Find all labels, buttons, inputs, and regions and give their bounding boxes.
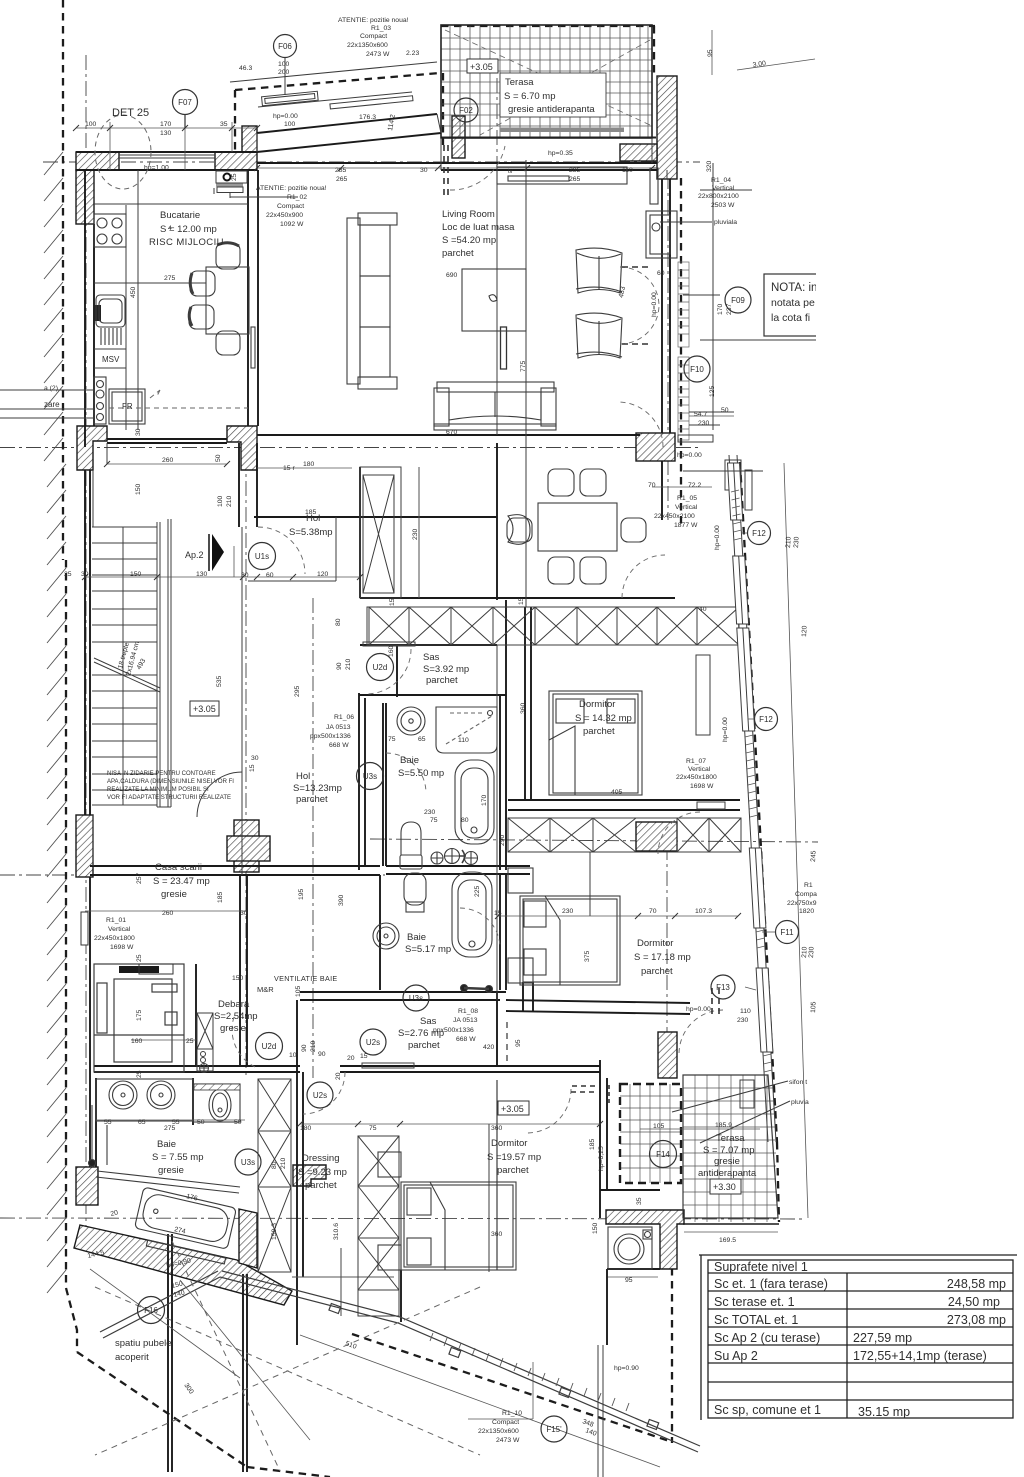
- svg-text:285: 285: [569, 167, 581, 174]
- svg-text:U2s: U2s: [313, 1091, 327, 1100]
- svg-text:110: 110: [458, 737, 469, 744]
- svg-text:50: 50: [234, 1119, 242, 1126]
- svg-text:F11: F11: [780, 928, 794, 937]
- svg-text:150.3: 150.3: [271, 1223, 278, 1240]
- svg-text:Compa: Compa: [795, 891, 817, 898]
- svg-text:230: 230: [424, 809, 436, 816]
- svg-text:54.7: 54.7: [694, 411, 707, 418]
- svg-text:Compact: Compact: [360, 33, 387, 40]
- svg-text:150: 150: [592, 1222, 599, 1234]
- svg-text:265: 265: [336, 176, 348, 183]
- svg-text:185: 185: [589, 1138, 596, 1150]
- svg-text:10: 10: [289, 1052, 297, 1059]
- svg-text:pluvia: pluvia: [791, 1099, 809, 1106]
- svg-text:30: 30: [240, 910, 248, 917]
- svg-text:NOTA: in: NOTA: in: [771, 282, 817, 294]
- svg-text:210: 210: [226, 495, 233, 507]
- svg-text:22x1350x600: 22x1350x600: [478, 1428, 519, 1435]
- svg-text:257: 257: [136, 872, 143, 884]
- svg-text:S=5.17 mp: S=5.17 mp: [405, 944, 451, 955]
- svg-text:22x450x1800: 22x450x1800: [94, 935, 135, 942]
- svg-text:DET 25: DET 25: [112, 107, 149, 119]
- svg-text:60: 60: [657, 270, 665, 277]
- svg-text:VOR FI ADAPTATE STRUCTURII REA: VOR FI ADAPTATE STRUCTURII REALIZATE: [107, 795, 231, 801]
- svg-text:F07: F07: [178, 98, 192, 107]
- svg-text:210: 210: [280, 1157, 287, 1169]
- svg-text:15: 15: [518, 597, 525, 605]
- svg-text:S=5.50 mp: S=5.50 mp: [398, 768, 444, 779]
- svg-text:hp=0.00: hp=0.00: [686, 1006, 711, 1013]
- svg-text:Sc sp, comune et 1: Sc sp, comune et 1: [714, 1403, 821, 1417]
- svg-text:260: 260: [162, 457, 174, 464]
- svg-text:Terasa: Terasa: [716, 1133, 745, 1144]
- svg-text:S = 6.70 mp: S = 6.70 mp: [504, 91, 556, 102]
- svg-text:F16: F16: [144, 1306, 158, 1315]
- svg-text:S = 17.18 mp: S = 17.18 mp: [634, 952, 691, 963]
- svg-text:gresie: gresie: [220, 1023, 246, 1034]
- svg-text:360: 360: [491, 1231, 503, 1238]
- svg-text:F13: F13: [716, 983, 730, 992]
- svg-text:105: 105: [810, 1001, 818, 1013]
- svg-text:Sc et. 1 (fara terase): Sc et. 1 (fara terase): [714, 1277, 828, 1291]
- svg-text:hp=0.00: hp=0.00: [273, 113, 298, 120]
- svg-text:775: 775: [520, 360, 527, 372]
- svg-text:R1_07: R1_07: [686, 758, 706, 765]
- svg-text:210: 210: [785, 536, 793, 548]
- svg-text:parchet: parchet: [296, 794, 328, 805]
- svg-text:Sc Ap 2 (cu terase): Sc Ap 2 (cu terase): [714, 1331, 820, 1345]
- svg-text:15: 15: [389, 598, 396, 606]
- svg-text:120: 120: [801, 625, 809, 637]
- svg-text:acoperit: acoperit: [115, 1352, 149, 1363]
- svg-text:parchet: parchet: [426, 675, 458, 686]
- svg-text:237: 237: [726, 303, 733, 315]
- svg-text:hp=0.00: hp=0.00: [651, 292, 658, 317]
- svg-text:107.3: 107.3: [695, 908, 712, 915]
- svg-text:50: 50: [197, 1119, 205, 1126]
- svg-text:30: 30: [135, 428, 142, 436]
- svg-text:22x1350x600: 22x1350x600: [347, 42, 388, 49]
- svg-text:65: 65: [418, 736, 426, 743]
- svg-text:R1_02: R1_02: [287, 194, 307, 201]
- svg-text:285: 285: [335, 167, 347, 174]
- svg-text:pluviala: pluviala: [714, 219, 737, 226]
- svg-text:35: 35: [220, 121, 228, 128]
- svg-text:la cota fi: la cota fi: [771, 312, 810, 324]
- svg-text:390: 390: [338, 894, 345, 906]
- svg-text:180: 180: [300, 1125, 312, 1132]
- svg-text:100: 100: [217, 495, 224, 507]
- svg-text:R1_01: R1_01: [106, 917, 126, 924]
- svg-text:Compact: Compact: [277, 203, 304, 210]
- svg-text:90: 90: [301, 1044, 308, 1052]
- svg-text:75: 75: [430, 817, 438, 824]
- svg-text:170: 170: [481, 794, 488, 806]
- svg-text:185: 185: [305, 509, 317, 516]
- svg-text:170: 170: [160, 121, 172, 128]
- svg-text:ppx500x1336: ppx500x1336: [433, 1027, 474, 1034]
- svg-text:Vertical: Vertical: [108, 926, 131, 933]
- svg-text:360: 360: [491, 1125, 503, 1132]
- svg-text:notata pe: notata pe: [771, 297, 815, 309]
- svg-text:U3s: U3s: [409, 994, 423, 1003]
- svg-text:169.5: 169.5: [719, 1237, 736, 1244]
- svg-text:F12: F12: [752, 529, 766, 538]
- svg-text:S=13.23mp: S=13.23mp: [293, 783, 342, 794]
- svg-text:S=3.92 mp: S=3.92 mp: [423, 664, 469, 675]
- svg-text:Sas: Sas: [420, 1016, 437, 1027]
- svg-text:Baie: Baie: [157, 1139, 176, 1150]
- svg-text:ATENTIE: pozitie noua!: ATENTIE: pozitie noua!: [338, 17, 409, 24]
- svg-text:F12: F12: [759, 715, 773, 724]
- svg-text:JA 0513: JA 0513: [453, 1017, 478, 1024]
- svg-text:S = 23.47 mp: S = 23.47 mp: [153, 876, 210, 887]
- svg-text:125: 125: [709, 385, 716, 397]
- svg-text:120: 120: [317, 571, 329, 578]
- svg-text:195: 195: [298, 888, 305, 900]
- svg-text:25: 25: [64, 571, 72, 578]
- svg-text:RISC MIJLOCIU: RISC MIJLOCIU: [149, 237, 224, 248]
- svg-text:MSV: MSV: [102, 355, 120, 364]
- svg-text:290: 290: [499, 834, 506, 846]
- svg-text:35: 35: [636, 1197, 643, 1205]
- svg-text:230: 230: [793, 536, 801, 548]
- svg-text:Dormitor: Dormitor: [637, 938, 673, 949]
- svg-text:70: 70: [648, 482, 656, 489]
- svg-text:105: 105: [653, 1123, 665, 1130]
- svg-text:R1_04: R1_04: [711, 177, 731, 184]
- svg-text:30: 30: [251, 755, 259, 762]
- svg-text:ppx500x1336: ppx500x1336: [310, 733, 351, 740]
- svg-text:Vertical: Vertical: [712, 185, 735, 192]
- svg-text:Ap.2: Ap.2: [185, 550, 204, 560]
- svg-text:668 W: 668 W: [456, 1036, 476, 1043]
- svg-text:a (2): a (2): [44, 385, 58, 392]
- svg-text:295: 295: [294, 685, 301, 697]
- svg-text:parchet: parchet: [583, 726, 615, 737]
- svg-text:hp=0.00: hp=0.00: [722, 717, 729, 742]
- svg-text:Su Ap 2: Su Ap 2: [714, 1349, 758, 1363]
- svg-text:24,50 mp: 24,50 mp: [948, 1295, 1000, 1309]
- svg-text:150: 150: [135, 483, 142, 495]
- svg-text:95: 95: [625, 1277, 633, 1284]
- svg-text:U3s: U3s: [241, 1158, 255, 1167]
- svg-text:ATENTIE: pozitie noua!: ATENTIE: pozitie noua!: [256, 185, 327, 192]
- svg-text:R1_08: R1_08: [458, 1008, 478, 1015]
- svg-text:APA,CALDURA (DIMENSIUNILE NISE: APA,CALDURA (DIMENSIUNILE NISEI VOR FI: [107, 779, 234, 785]
- svg-text:R1_10: R1_10: [502, 1410, 522, 1417]
- svg-text:sifon t: sifon t: [789, 1079, 807, 1086]
- svg-text:gresie antiderapanta: gresie antiderapanta: [508, 104, 595, 115]
- svg-text:FR: FR: [122, 402, 133, 411]
- svg-text:F14: F14: [656, 1150, 670, 1159]
- svg-text:90: 90: [336, 662, 343, 670]
- svg-text:Terasa: Terasa: [505, 77, 534, 88]
- svg-text:F06: F06: [278, 42, 292, 51]
- svg-text:2473 W: 2473 W: [496, 1437, 520, 1444]
- svg-text:Loc de luat masa: Loc de luat masa: [442, 222, 515, 233]
- svg-text:+3.05: +3.05: [193, 704, 216, 714]
- svg-text:100: 100: [284, 121, 296, 128]
- svg-text:R1: R1: [804, 882, 813, 889]
- svg-text:375: 375: [584, 950, 591, 962]
- svg-text:260: 260: [162, 910, 174, 917]
- svg-text:Hol: Hol: [296, 771, 310, 782]
- svg-text:Bucatarie: Bucatarie: [160, 210, 200, 221]
- svg-text:15: 15: [360, 1053, 368, 1060]
- svg-text:gresie: gresie: [158, 1165, 184, 1176]
- svg-text:210: 210: [345, 658, 352, 670]
- svg-text:+3.05: +3.05: [501, 1104, 524, 1114]
- svg-text:172,55+14,1mp (terase): 172,55+14,1mp (terase): [853, 1349, 987, 1363]
- svg-text:parchet: parchet: [408, 1040, 440, 1051]
- svg-text:F02: F02: [459, 106, 473, 115]
- svg-text:450: 450: [130, 286, 137, 298]
- svg-text:gresie: gresie: [714, 1156, 740, 1167]
- svg-text:185.9: 185.9: [715, 1122, 732, 1129]
- svg-text:60: 60: [266, 572, 274, 579]
- svg-text:150: 150: [130, 571, 142, 578]
- svg-text:25: 25: [136, 954, 143, 962]
- svg-text:parchet: parchet: [442, 248, 474, 259]
- svg-text:REALIZATE LA MINIMUM POSIBIL S: REALIZATE LA MINIMUM POSIBIL SI: [107, 787, 209, 793]
- svg-text:100: 100: [85, 121, 97, 128]
- svg-text:670: 670: [446, 429, 458, 436]
- svg-text:R1_05: R1_05: [677, 495, 697, 502]
- svg-text:130: 130: [160, 130, 172, 137]
- svg-text:50: 50: [215, 454, 222, 462]
- svg-text:parchet: parchet: [641, 966, 673, 977]
- svg-text:1092 W: 1092 W: [280, 221, 304, 228]
- svg-text:105: 105: [295, 985, 302, 997]
- svg-text:35.15 mp: 35.15 mp: [858, 1405, 910, 1419]
- svg-text:185: 185: [217, 891, 224, 903]
- svg-text:Compact: Compact: [492, 1419, 519, 1426]
- svg-text:225: 225: [474, 885, 481, 897]
- svg-text:75: 75: [369, 1125, 377, 1132]
- svg-text:S=2.54mp: S=2.54mp: [214, 1011, 258, 1022]
- svg-text:40: 40: [699, 606, 707, 613]
- svg-text:25: 25: [136, 1070, 143, 1078]
- svg-text:+3.05: +3.05: [470, 62, 493, 72]
- svg-text:175: 175: [136, 1009, 143, 1021]
- svg-text:180: 180: [303, 461, 315, 468]
- svg-text:22x450x2100: 22x450x2100: [654, 513, 695, 520]
- svg-text:20: 20: [335, 1072, 342, 1080]
- svg-text:275: 275: [164, 1125, 176, 1132]
- svg-text:F10: F10: [690, 365, 704, 374]
- svg-text:273,08 mp: 273,08 mp: [947, 1313, 1006, 1327]
- svg-text:parchet: parchet: [497, 1165, 529, 1176]
- svg-text:690: 690: [446, 272, 458, 279]
- svg-text:1698 W: 1698 W: [690, 783, 714, 790]
- svg-text:160: 160: [131, 1038, 143, 1045]
- svg-text:Sc terase et. 1: Sc terase et. 1: [714, 1295, 795, 1309]
- svg-text:110: 110: [622, 167, 633, 174]
- svg-text:72.2: 72.2: [688, 482, 701, 489]
- svg-text:hp=0.90: hp=0.90: [614, 1365, 639, 1372]
- svg-text:Sc TOTAL et. 1: Sc TOTAL et. 1: [714, 1313, 798, 1327]
- svg-text:176.3: 176.3: [359, 114, 376, 121]
- svg-text:30: 30: [81, 571, 89, 578]
- svg-text:22x800x2100: 22x800x2100: [698, 193, 739, 200]
- svg-text:80: 80: [335, 618, 342, 626]
- svg-text:U2d: U2d: [373, 663, 388, 672]
- svg-text:110: 110: [740, 1008, 751, 1015]
- svg-text:320: 320: [706, 160, 713, 172]
- svg-text:hp=0.00: hp=0.00: [714, 525, 721, 550]
- svg-text:zare: zare: [44, 400, 60, 409]
- svg-text:230: 230: [808, 946, 816, 958]
- svg-text:R1_03: R1_03: [371, 25, 391, 32]
- svg-text:Dressing: Dressing: [302, 1153, 340, 1164]
- svg-text:420: 420: [483, 1044, 495, 1051]
- svg-text:hp=0.35: hp=0.35: [548, 150, 573, 157]
- svg-text:2473 W: 2473 W: [366, 51, 390, 58]
- svg-text:Baie: Baie: [407, 932, 426, 943]
- svg-text:22x750x9: 22x750x9: [787, 900, 817, 907]
- svg-text:245: 245: [810, 850, 818, 862]
- svg-text:M&R: M&R: [257, 985, 274, 994]
- svg-text:Vertical: Vertical: [675, 504, 698, 511]
- svg-text:1877 W: 1877 W: [674, 522, 698, 529]
- svg-text:S =19.57 mp: S =19.57 mp: [487, 1152, 541, 1163]
- svg-text:S=5.38mp: S=5.38mp: [289, 527, 333, 538]
- svg-text:Vertical: Vertical: [688, 766, 711, 773]
- svg-text:parchet: parchet: [305, 1180, 337, 1191]
- svg-text:30: 30: [241, 572, 249, 579]
- svg-text:1820: 1820: [799, 908, 814, 915]
- svg-text:248,58 mp: 248,58 mp: [947, 1277, 1006, 1291]
- svg-text:230: 230: [412, 528, 419, 540]
- svg-text:230: 230: [737, 1017, 749, 1024]
- svg-text:230: 230: [562, 908, 574, 915]
- svg-text:130: 130: [196, 571, 208, 578]
- svg-text:95: 95: [515, 1039, 522, 1047]
- svg-text:Dormitor: Dormitor: [491, 1138, 527, 1149]
- svg-text:Suprafete nivel 1: Suprafete nivel 1: [714, 1260, 808, 1274]
- svg-text:170: 170: [717, 303, 724, 315]
- svg-text:4: 4: [168, 225, 172, 232]
- svg-text:80: 80: [461, 817, 469, 824]
- svg-text:U1s: U1s: [255, 552, 269, 561]
- svg-text:80: 80: [271, 1161, 278, 1169]
- svg-text:46.3: 46.3: [239, 65, 252, 72]
- svg-text:25: 25: [186, 1038, 194, 1045]
- svg-text:150: 150: [232, 975, 244, 982]
- svg-text:160: 160: [388, 645, 395, 657]
- svg-text:Living Room: Living Room: [442, 209, 495, 220]
- svg-text:55: 55: [104, 1119, 112, 1126]
- svg-text:265: 265: [569, 176, 581, 183]
- svg-text:405: 405: [611, 789, 623, 796]
- svg-text:gresie: gresie: [161, 889, 187, 900]
- svg-text:275: 275: [164, 275, 176, 282]
- svg-text:22x450x900: 22x450x900: [266, 212, 303, 219]
- svg-text:1698 W: 1698 W: [110, 944, 134, 951]
- svg-text:30: 30: [420, 167, 428, 174]
- svg-text:Dormitor: Dormitor: [579, 699, 615, 710]
- svg-text:JA 0513: JA 0513: [326, 724, 351, 731]
- svg-text:200: 200: [278, 69, 290, 76]
- svg-text:15: 15: [249, 764, 256, 772]
- svg-text:U2d: U2d: [262, 1042, 277, 1051]
- svg-text:22x450x1800: 22x450x1800: [676, 774, 717, 781]
- svg-text:S =54.20 mp: S =54.20 mp: [442, 235, 496, 246]
- svg-text:90: 90: [318, 1051, 326, 1058]
- svg-text:+3.30: +3.30: [713, 1182, 736, 1192]
- svg-text:NISA IN ZIDARIE PENTRU CONTOAR: NISA IN ZIDARIE PENTRU CONTOARE: [107, 771, 216, 777]
- svg-text:20: 20: [347, 1055, 355, 1062]
- svg-text:50: 50: [721, 407, 729, 414]
- svg-text:Baie: Baie: [400, 755, 419, 766]
- svg-text:hp=0.00: hp=0.00: [677, 452, 702, 459]
- svg-text:227,59 mp: 227,59 mp: [853, 1331, 912, 1345]
- svg-text:hp=0,25: hp=0,25: [598, 1146, 605, 1171]
- svg-text:S =9.23 mp: S =9.23 mp: [298, 1167, 347, 1178]
- svg-text:70: 70: [649, 908, 657, 915]
- svg-text:spatiu pubele: spatiu pubele: [115, 1338, 172, 1349]
- svg-text:2.23: 2.23: [406, 50, 419, 57]
- svg-text:210: 210: [310, 1040, 317, 1052]
- svg-text:25: 25: [231, 173, 238, 181]
- svg-text:65: 65: [138, 1119, 146, 1126]
- svg-text:tv: tv: [508, 169, 513, 175]
- svg-text:310.6: 310.6: [333, 1223, 340, 1240]
- svg-text:668 W: 668 W: [329, 742, 349, 749]
- svg-text:S = 7.55 mp: S = 7.55 mp: [152, 1152, 204, 1163]
- svg-text:F09: F09: [731, 296, 745, 305]
- svg-text:S = 7.07 mp: S = 7.07 mp: [703, 1145, 755, 1156]
- svg-text:100: 100: [278, 61, 290, 68]
- svg-text:U3s: U3s: [363, 772, 377, 781]
- svg-text:230: 230: [698, 420, 710, 427]
- svg-text:2503 W: 2503 W: [711, 202, 735, 209]
- svg-text:Sas: Sas: [423, 652, 440, 663]
- svg-text:Casa scarii: Casa scarii: [155, 862, 202, 873]
- svg-text:R1_06: R1_06: [334, 714, 354, 721]
- svg-text:360: 360: [520, 702, 527, 714]
- svg-text:535: 535: [216, 675, 223, 687]
- svg-text:15 r: 15 r: [283, 465, 295, 472]
- svg-text:S = 14.32 mp: S = 14.32 mp: [575, 713, 632, 724]
- svg-text:95: 95: [707, 49, 714, 57]
- svg-text:15: 15: [494, 910, 502, 917]
- svg-text:hp=1.00: hp=1.00: [144, 165, 169, 172]
- svg-text:U2s: U2s: [366, 1038, 380, 1047]
- svg-text:75: 75: [388, 736, 396, 743]
- svg-text:VENTILATIE BAIE: VENTILATIE BAIE: [274, 974, 337, 983]
- svg-text:Debara: Debara: [218, 999, 250, 1010]
- svg-text:antiderapanta: antiderapanta: [698, 1168, 757, 1179]
- svg-text:F15': F15': [546, 1425, 562, 1434]
